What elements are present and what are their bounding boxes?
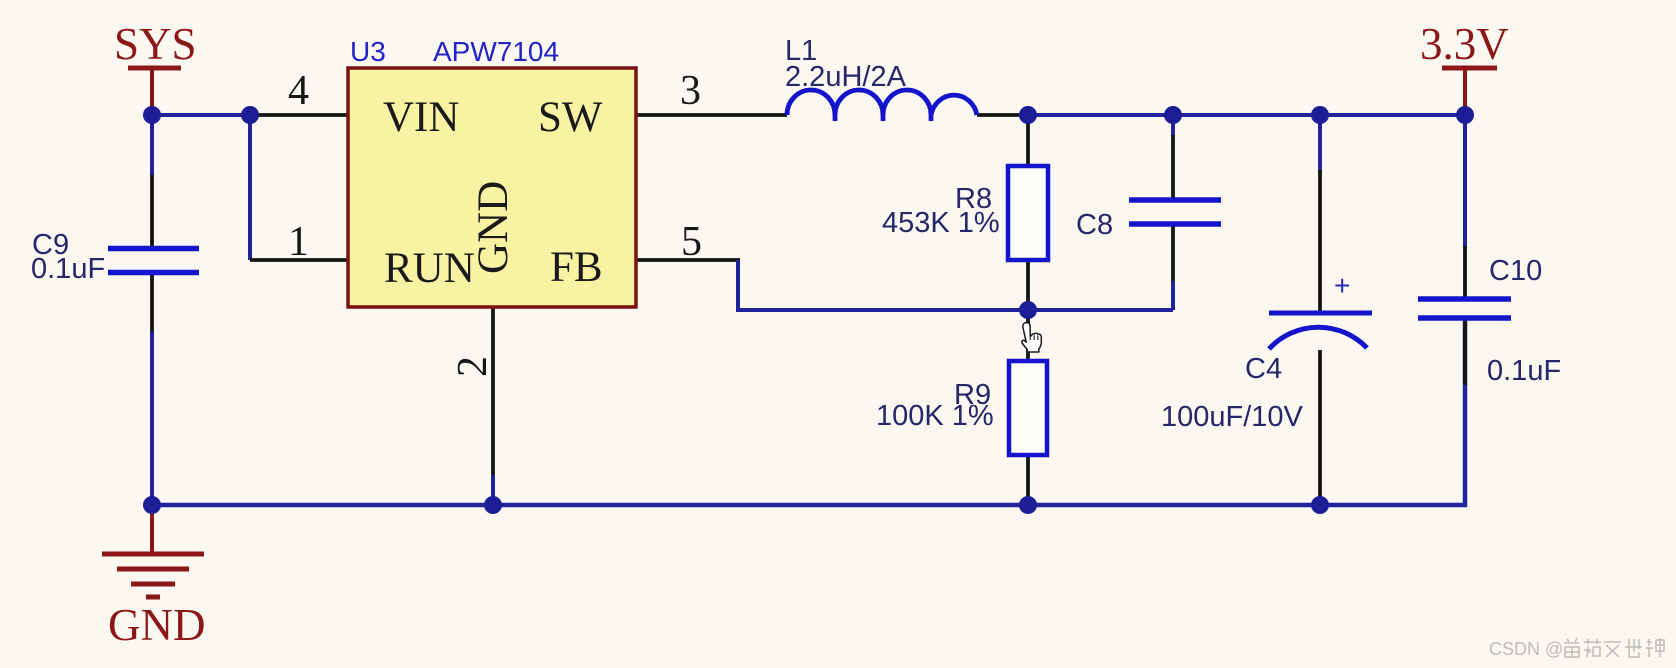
capacitor C10: [1418, 255, 1561, 387]
svg-text:0.1uF: 0.1uF: [31, 253, 105, 285]
capacitor C9: [31, 229, 199, 285]
node: SYS junction: [143, 106, 161, 124]
node: GND rail R9 junction: [1019, 496, 1037, 514]
node: VIN/RUN junction: [241, 106, 259, 124]
wire: R9 bottom lead: [1026, 455, 1030, 505]
wire: C8 bottom lead to FB rail: [1171, 226, 1175, 283]
svg-text:0.1uF: 0.1uF: [1487, 355, 1561, 387]
capacitor C8: [1076, 200, 1221, 241]
svg-text:1: 1: [288, 219, 309, 265]
svg-text:453K 1%: 453K 1%: [882, 207, 1000, 239]
svg-text:APW7104: APW7104: [433, 36, 559, 67]
power port SYS: [114, 19, 197, 115]
node: C4 top junction: [1311, 106, 1329, 124]
wire: C10 bottom lead: [1463, 320, 1467, 385]
wire: C4 bottom lead: [1318, 350, 1322, 505]
svg-text:SYS: SYS: [114, 19, 197, 69]
wire: junction2 to chip VIN pin4: [250, 113, 348, 117]
watermark CSDN: [1489, 638, 1664, 659]
wire: C8 top lead: [1171, 115, 1175, 137]
svg-text:100K 1%: 100K 1%: [876, 400, 994, 432]
svg-text:VIN: VIN: [383, 94, 459, 141]
svg-text:+: +: [1334, 270, 1350, 301]
inductor L1: [785, 35, 977, 121]
node: GND rail C4 junction: [1311, 496, 1329, 514]
svg-text:GND: GND: [108, 600, 206, 650]
wire: C4 top lead: [1318, 115, 1322, 172]
svg-text:C4: C4: [1245, 353, 1282, 385]
node: GND rail C9 junction: [143, 496, 161, 514]
svg-text:3.3V: 3.3V: [1420, 19, 1509, 69]
svg-text:2.2uH/2A: 2.2uH/2A: [785, 61, 907, 93]
wire: C9 bottom lead to ground rail: [150, 272, 154, 334]
resistor R8: [882, 166, 1048, 260]
node: C8 top junction: [1164, 106, 1182, 124]
wire: R9 top lead: [1026, 310, 1030, 361]
wire: FB net elbow and rail: [738, 260, 1173, 310]
svg-text:100uF/10V: 100uF/10V: [1161, 401, 1304, 433]
svg-text:C8: C8: [1076, 209, 1113, 241]
svg-text:CSDN @: CSDN @: [1489, 639, 1563, 659]
power port 3.3V: [1420, 19, 1509, 115]
svg-text:GND: GND: [470, 181, 517, 274]
svg-text:U3: U3: [350, 36, 386, 67]
ground GND symbol: [102, 505, 206, 650]
node: GND rail pin2 junction: [484, 496, 502, 514]
svg-text:C10: C10: [1489, 255, 1542, 287]
svg-text:5: 5: [681, 219, 702, 265]
op-amp U1: regulator IC U3 APW7104: [348, 36, 636, 307]
wire: chip pin2 GND stub down to rail: [491, 307, 495, 477]
wire: output rail to 3.3V junction: [1028, 113, 1465, 117]
node: 3.3V junction: [1456, 106, 1474, 124]
svg-text:SW: SW: [538, 94, 603, 141]
wire: C9 top lead: [150, 115, 154, 177]
svg-text:FB: FB: [550, 244, 603, 291]
wire: to chip RUN pin1: [250, 258, 348, 262]
capacitor C4 (electrolytic): [1161, 270, 1372, 433]
node: SW output junction: [1019, 106, 1037, 124]
wire: inductor to output junction: [977, 113, 1028, 117]
svg-text:2: 2: [450, 356, 496, 377]
wire: junction2 down to RUN level: [248, 115, 252, 260]
wire: ground rail: [152, 320, 1465, 505]
wire: C10 top lead: [1463, 115, 1467, 248]
resistor R9: [876, 361, 1047, 455]
mouse cursor (hand pointer): [1022, 323, 1041, 353]
node: FB junction: [1019, 301, 1037, 319]
wire: R8 top lead: [1026, 115, 1030, 166]
svg-text:4: 4: [288, 68, 309, 114]
svg-text:3: 3: [680, 68, 701, 114]
svg-text:RUN: RUN: [384, 245, 475, 292]
wire: top rail SYS junction to junction2: [152, 113, 250, 117]
wire: FB pin5 to FB rail: [636, 258, 740, 262]
wire: R8 bottom lead: [1026, 260, 1030, 310]
wire: chip SW pin3 to inductor: [636, 113, 787, 117]
